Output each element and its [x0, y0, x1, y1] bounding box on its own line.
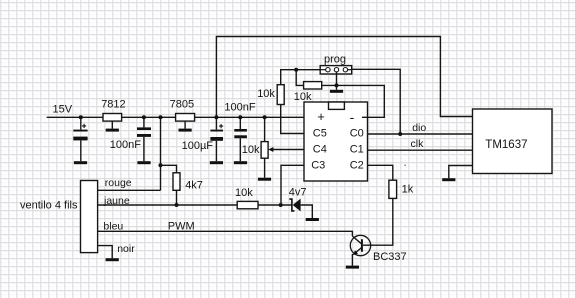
- resistor R1 4k7: [173, 173, 180, 191]
- resistor R4 10k horizontal (to MCLR): [304, 82, 322, 89]
- svg-text:clk: clk: [411, 138, 425, 150]
- prog pin circle 1: [326, 68, 330, 72]
- svg-text:C5: C5: [313, 128, 327, 140]
- wire R2 to zener node: [258, 204, 292, 206]
- svg-text:7805: 7805: [170, 99, 194, 111]
- svg-text:10k: 10k: [242, 144, 260, 156]
- svg-text:15V: 15V: [53, 104, 73, 116]
- zener D1 anode triangle: [293, 199, 301, 212]
- node stray mark right of C2 corner: [404, 164, 406, 166]
- wire C2 to 1k: [368, 165, 393, 180]
- ground under C2: [137, 161, 150, 164]
- svg-text:prog: prog: [324, 54, 346, 66]
- resistor R2 10k series: [237, 201, 258, 208]
- ground noir: [106, 258, 119, 261]
- wire 5V rail 7805 to PIC + pin: [195, 116, 304, 118]
- node junction 4k7 branch: [159, 163, 163, 167]
- svg-text:7812: 7812: [101, 99, 125, 111]
- svg-text:bleu: bleu: [103, 221, 123, 233]
- ground under C1: [74, 161, 87, 164]
- wire rouge: [98, 189, 161, 191]
- PIC U3 body: [304, 102, 368, 181]
- node 4k7 on jaune: [175, 203, 179, 207]
- node rail junction at 12V drop: [159, 115, 163, 119]
- node rail junction at C4: [238, 115, 242, 119]
- ground TM1637: [442, 178, 455, 181]
- svg-text:+: +: [317, 109, 325, 124]
- wire prog pin3 inner stub: [348, 69, 352, 71]
- connector J1 ventilo: [81, 181, 98, 253]
- wire clk C1 to TM1637: [368, 149, 473, 151]
- ground under 7805: [179, 129, 192, 132]
- transistor Q1 BC337 body circle: [350, 235, 370, 255]
- polarity + of C3: [219, 124, 223, 128]
- svg-text:C0: C0: [350, 128, 364, 140]
- wire branch to 4k7 top: [161, 165, 177, 173]
- wire top 5V feed to TM1637: [216, 37, 472, 118]
- ground under Q1: [346, 266, 359, 269]
- ground under 7812: [106, 129, 119, 132]
- Q1 emitter line: [353, 248, 361, 255]
- svg-text:BC337: BC337: [373, 251, 407, 263]
- node rail junction at C2: [142, 115, 146, 119]
- zener D1 4v7 cathode bar: [289, 199, 294, 211]
- svg-text:C3: C3: [311, 160, 325, 172]
- svg-text:TM1637: TM1637: [485, 139, 527, 151]
- display module TM1637: [473, 109, 553, 174]
- node prog pin1 junction: [294, 68, 298, 72]
- svg-text:noir: noir: [117, 243, 135, 255]
- svg-text:4v7: 4v7: [289, 187, 307, 199]
- connector J2 prog: [320, 66, 352, 74]
- wire rail 7812 to 7805: [122, 116, 176, 118]
- resistor R5 1k: [389, 180, 397, 198]
- wire 4k7 bottom to jaune: [176, 190, 178, 205]
- wire 7805 gnd pin: [184, 121, 186, 129]
- svg-text:10k: 10k: [257, 88, 275, 100]
- svg-text:100µF: 100µF: [182, 140, 214, 152]
- wire bleu / PWM: [98, 231, 353, 236]
- wire R3 bottom to C5 pin: [281, 105, 304, 134]
- ground under C3: [210, 161, 223, 164]
- svg-text:100nF: 100nF: [110, 139, 141, 151]
- Q1 base bar: [361, 239, 363, 252]
- wire C3 pin drop: [281, 165, 304, 205]
- wire 1k to base: [363, 198, 393, 245]
- prog pin circle 3: [343, 68, 347, 72]
- wiper arrow of RV1: [268, 147, 273, 152]
- resistor R3 10k vertical (prog to C5): [277, 85, 284, 105]
- wire 12V drop to rouge: [160, 117, 162, 190]
- svg-text:1k: 1k: [402, 184, 414, 196]
- PIC top notch: [329, 102, 345, 109]
- wire zener anode to ground: [301, 205, 313, 218]
- svg-text:jaune: jaune: [103, 195, 130, 207]
- wire emitter to ground: [351, 254, 353, 266]
- wire noir: [98, 246, 113, 259]
- svg-text:PWM: PWM: [168, 221, 195, 233]
- wire prog junction down to R4: [296, 70, 303, 86]
- svg-text:ventilo 4 fils: ventilo 4 fils: [20, 199, 78, 211]
- wire prog pin1 to left: [281, 70, 321, 85]
- svg-text:-: -: [350, 109, 355, 125]
- svg-text:100nF: 100nF: [224, 101, 255, 113]
- svg-text:4k7: 4k7: [185, 179, 203, 191]
- node dio junction: [398, 132, 402, 136]
- svg-text:10k: 10k: [235, 187, 253, 199]
- ground under RV1: [258, 178, 271, 181]
- wire prog pin3 to dio: [352, 69, 401, 134]
- ground under prog: [330, 90, 343, 93]
- wire 15V input rail segment: [47, 116, 103, 118]
- ground under zener: [306, 218, 319, 221]
- wire R4 to - pin: [322, 85, 385, 117]
- capacitor C4 100nF (5V side): [239, 117, 241, 161]
- wire TM1637 gnd: [449, 166, 473, 179]
- wire jaune: [98, 204, 238, 206]
- node zener / C3 pin: [279, 203, 283, 207]
- wire prog pin2 ground stub: [336, 72, 338, 90]
- svg-text:C1: C1: [350, 144, 364, 156]
- svg-text:rouge: rouge: [105, 177, 132, 189]
- Q1 collector line: [352, 236, 361, 244]
- regulator U2 7805: [176, 114, 195, 122]
- node prog pin2 on 10k wire: [335, 83, 339, 87]
- Q1 emitter arrowhead: [353, 250, 358, 255]
- wire dio C0 to TM1637: [368, 133, 473, 135]
- potentiometer RV1 10k: [261, 117, 304, 177]
- svg-text:dio: dio: [412, 122, 426, 134]
- node rail junction at RV1: [263, 115, 267, 119]
- node rail junction at C3 / top feed: [214, 115, 218, 119]
- svg-text:C2: C2: [350, 160, 364, 172]
- capacitor C3 100uF electrolytic: [215, 117, 217, 161]
- svg-text:10k: 10k: [294, 91, 312, 103]
- ground under C4: [234, 161, 247, 164]
- capacitor C1 input electrolytic: [80, 117, 82, 161]
- polarity + of C1: [82, 124, 86, 128]
- prog pin circle 2: [334, 68, 338, 72]
- capacitor C2 100nF (12V side): [143, 117, 145, 161]
- regulator U1 7812: [103, 114, 122, 122]
- wire 7812 gnd pin: [111, 121, 113, 129]
- node rail junction at C1: [79, 115, 83, 119]
- svg-text:C4: C4: [313, 144, 327, 156]
- wire prog pin1 inner stub: [320, 69, 325, 71]
